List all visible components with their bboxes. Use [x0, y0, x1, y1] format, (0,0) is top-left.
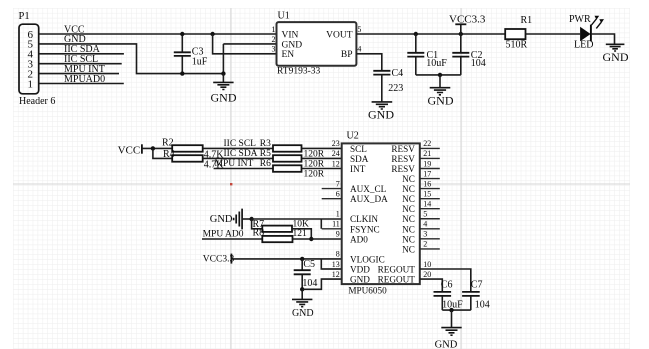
junction C1C2 ground — [438, 73, 442, 77]
junction VOUT/C1 — [414, 32, 418, 36]
svg-text:VCC3.3: VCC3.3 — [449, 13, 486, 25]
svg-text:8: 8 — [336, 250, 340, 259]
U2 pin 12 INT — [332, 159, 366, 174]
wire U2.10 to C7 — [420, 269, 471, 292]
svg-text:3: 3 — [423, 230, 427, 239]
svg-text:NC: NC — [402, 204, 415, 214]
U2 pin 8 VLOGIC — [336, 250, 385, 265]
wire VCC down to R4 — [153, 148, 172, 158]
U2 pin 18 GND — [332, 270, 370, 285]
U2 pin 7 AUX_CL — [336, 179, 387, 194]
svg-text:104: 104 — [471, 58, 486, 69]
svg-text:IIC SDA: IIC SDA — [224, 149, 258, 159]
junction C6C7 ground — [449, 308, 453, 312]
svg-text:SDA: SDA — [350, 154, 369, 164]
junction R7/AD0 — [309, 237, 313, 241]
svg-text:GND: GND — [282, 40, 303, 50]
svg-text:SCL: SCL — [350, 144, 367, 154]
svg-text:NC: NC — [402, 244, 415, 254]
wire R3 to U2.23 — [302, 147, 342, 149]
svg-text:AUX_DA: AUX_DA — [350, 194, 388, 204]
U2 pin 6 AUX_DA — [336, 189, 388, 204]
svg-text:FSYNC: FSYNC — [350, 224, 380, 234]
svg-text:19: 19 — [423, 159, 431, 168]
U2 pin 16 NC — [402, 179, 431, 194]
svg-text:9: 9 — [336, 230, 340, 239]
junction C5 ground — [300, 287, 304, 291]
wire C1 to C2 bottom — [416, 74, 461, 76]
wire LED cathode to ground — [591, 34, 615, 44]
svg-text:MPU AD0: MPU AD0 — [203, 229, 244, 239]
wire net IIC SDA from P1.4 — [39, 44, 124, 55]
svg-text:VDD: VDD — [350, 265, 370, 275]
U2 pin 15 NC — [402, 189, 431, 204]
U2 pin 2 NC — [402, 240, 427, 255]
svg-text:15: 15 — [423, 189, 431, 198]
U1 pin 2 — [272, 35, 276, 44]
svg-text:VCC3.3: VCC3.3 — [203, 254, 235, 264]
capacitor C6 10uF — [434, 280, 464, 311]
svg-text:4: 4 — [357, 45, 361, 54]
svg-text:R1: R1 — [521, 15, 533, 26]
U2 pin 17 NC — [402, 169, 431, 184]
svg-text:BP: BP — [341, 50, 353, 60]
svg-text:17: 17 — [423, 169, 431, 178]
U2 pin 5 NC — [402, 210, 427, 225]
wire U1.GND to ground rail — [223, 44, 276, 74]
svg-text:U1: U1 — [278, 11, 290, 22]
svg-text:120R: 120R — [304, 169, 325, 179]
ground symbol near C3 — [211, 74, 237, 105]
wire R1 to LED — [526, 33, 581, 35]
P1 pin 6 — [28, 29, 34, 41]
svg-text:NC: NC — [402, 184, 415, 194]
capacitor C1 10uF — [407, 34, 447, 75]
svg-text:R4: R4 — [163, 149, 175, 160]
wire VCC net from P1.6 to U1.VIN — [39, 24, 277, 35]
svg-text:R2: R2 — [162, 137, 174, 148]
P1 pin 3 — [28, 59, 34, 71]
U2 pin 19 RESV — [391, 159, 431, 174]
svg-text:12: 12 — [332, 159, 340, 168]
resistor R8 121 — [253, 227, 308, 242]
junction CLKIN gnd/R7 — [249, 217, 253, 221]
power port VCC3.3 top — [449, 13, 486, 34]
op-amp regulator U1 RT9193-33 — [277, 11, 357, 77]
junction GND rail/C3 — [180, 71, 184, 75]
svg-text:C6: C6 — [441, 280, 453, 291]
svg-text:23: 23 — [332, 139, 340, 148]
wire net MPUAD0 from P1.1 — [39, 74, 124, 85]
wire GND net from P1.5 down to ground rail — [39, 34, 224, 73]
wire gnd to U2.CLKIN and U2.FSYNC — [252, 219, 342, 229]
svg-text:REGOUT: REGOUT — [378, 275, 416, 285]
svg-text:MPUAD0: MPUAD0 — [64, 74, 105, 85]
U2 pin 21 RESV — [391, 149, 431, 164]
svg-text:22: 22 — [423, 139, 431, 148]
resistor R4 4.7K — [163, 149, 224, 170]
wire net MPU AD0 to R8 — [202, 229, 262, 239]
resistor R1 510R — [505, 15, 532, 51]
U2 pin 3 NC — [402, 230, 427, 245]
wire R6 to U2.12 — [302, 168, 342, 170]
capacitor C7 104 — [462, 280, 490, 311]
U2 pin 13 VDD — [332, 260, 370, 275]
resistor R6 120R — [260, 159, 325, 179]
svg-text:5: 5 — [423, 210, 427, 219]
svg-text:Header 6: Header 6 — [19, 96, 55, 107]
svg-text:1: 1 — [272, 25, 276, 34]
wire net MPU INT from P1.2 — [39, 64, 119, 75]
svg-text:NC: NC — [402, 194, 415, 204]
svg-text:R3: R3 — [260, 139, 271, 149]
svg-text:GND: GND — [350, 275, 370, 285]
svg-text:C7: C7 — [471, 280, 483, 291]
P1 pin 5 — [28, 39, 34, 51]
svg-text:NC: NC — [402, 234, 415, 244]
junction VCC/EN tie — [210, 32, 214, 36]
P1 pin 1 — [28, 78, 34, 90]
svg-text:LED: LED — [574, 40, 593, 51]
svg-text:NC: NC — [402, 214, 415, 224]
svg-text:GND: GND — [435, 339, 458, 349]
P1 pin 4 — [28, 49, 34, 61]
ground under C4 — [368, 102, 394, 122]
resistor R3 120R — [260, 139, 325, 160]
resistor R2 4.7K — [162, 137, 224, 160]
capacitor C5 104 — [294, 259, 318, 289]
svg-text:16: 16 — [423, 179, 431, 188]
svg-text:R8: R8 — [253, 227, 265, 238]
wire C6 to C7 bottom — [442, 309, 471, 311]
svg-text:C5: C5 — [303, 259, 315, 270]
svg-text:1: 1 — [28, 78, 34, 90]
U2 pin 1 CLKIN — [336, 210, 379, 225]
svg-text:104: 104 — [302, 278, 317, 289]
svg-text:20: 20 — [423, 270, 431, 279]
U1 pin 5 — [357, 25, 361, 34]
wire net MPU INT to R6 — [214, 159, 273, 169]
svg-text:PWR: PWR — [569, 14, 591, 25]
U2 pin 10 REGOUT — [378, 260, 432, 275]
U2 pin 20 REGOUT — [378, 270, 432, 285]
svg-text:U2: U2 — [347, 131, 359, 142]
svg-text:MPU INT: MPU INT — [215, 159, 254, 169]
wire R7 to AD0 node — [292, 229, 311, 239]
wire net IIC SCL from P1.3 — [39, 54, 122, 65]
svg-text:AUX_CL: AUX_CL — [350, 184, 387, 194]
sheet origin marker — [230, 183, 232, 185]
svg-text:1uF: 1uF — [192, 56, 208, 67]
wire junction down to R7 — [252, 219, 263, 229]
U1 pin 3 — [272, 45, 276, 54]
svg-text:GND: GND — [428, 94, 454, 108]
U2 pin 11 FSYNC — [332, 220, 380, 235]
ground under C6 C7 — [435, 310, 462, 349]
ground at LED — [603, 44, 629, 64]
svg-text:10: 10 — [423, 260, 431, 269]
svg-text:MPU6050: MPU6050 — [348, 286, 387, 296]
svg-text:VOUT: VOUT — [326, 30, 353, 40]
svg-text:C4: C4 — [392, 68, 404, 79]
wire VCC to U1.EN — [213, 34, 277, 54]
wire U2.20 to C6 — [420, 279, 443, 292]
svg-text:RT9193-33: RT9193-33 — [277, 66, 320, 76]
U2 left bare pin stubs — [322, 189, 342, 279]
svg-text:P1: P1 — [19, 11, 30, 22]
svg-text:510R: 510R — [506, 40, 528, 51]
P1 pin 2 — [28, 68, 34, 80]
svg-text:IIC SCL: IIC SCL — [224, 139, 257, 149]
svg-text:VIN: VIN — [282, 30, 299, 40]
connector P1 — [19, 11, 56, 107]
svg-text:AD0: AD0 — [350, 234, 368, 244]
svg-text:12: 12 — [332, 270, 340, 279]
LED PWR — [569, 14, 604, 51]
power port VCC middle — [118, 144, 173, 156]
svg-text:GND: GND — [210, 214, 233, 225]
svg-text:GND: GND — [292, 308, 314, 319]
svg-text:R5: R5 — [260, 149, 271, 159]
svg-text:RESV: RESV — [391, 164, 415, 174]
wire net IIC SCL to R3 — [203, 139, 273, 149]
ground under C1 C2 — [428, 75, 454, 108]
svg-text:223: 223 — [388, 83, 403, 94]
svg-text:GND: GND — [211, 91, 237, 105]
svg-text:VCC: VCC — [118, 145, 141, 157]
svg-text:13: 13 — [332, 260, 340, 269]
U2 right pin stubs — [420, 148, 440, 249]
svg-text:CLKIN: CLKIN — [350, 214, 378, 224]
svg-text:2: 2 — [272, 35, 276, 44]
wire R5 to U2.24 — [302, 157, 342, 159]
junction VCC3.3/C5 — [300, 257, 304, 261]
svg-text:RESV: RESV — [391, 144, 415, 154]
wire VOUT rail to R1 — [356, 33, 505, 35]
svg-text:INT: INT — [350, 164, 366, 174]
svg-text:21: 21 — [423, 149, 431, 158]
svg-text:GND: GND — [368, 107, 394, 121]
svg-text:REGOUT: REGOUT — [378, 265, 416, 275]
svg-text:11: 11 — [332, 220, 340, 229]
svg-text:VLOGIC: VLOGIC — [350, 254, 385, 264]
U2 pin 4 NC — [402, 220, 427, 235]
svg-text:NC: NC — [402, 224, 415, 234]
svg-text:7: 7 — [336, 179, 340, 188]
svg-text:RESV: RESV — [391, 154, 415, 164]
svg-text:10uF: 10uF — [426, 58, 447, 69]
svg-text:4: 4 — [423, 220, 427, 229]
wire net IIC SDA to R5 — [203, 149, 273, 159]
IC U2 MPU6050 — [342, 131, 420, 296]
resistor R7 10K — [253, 219, 310, 232]
U2 pin 22 RESV — [391, 139, 431, 154]
junction VOUT/VCC3.3 — [459, 32, 463, 36]
resistor R5 120R — [260, 149, 325, 170]
U2 pin 9 AD0 — [336, 230, 368, 245]
power port VCC3.3 lower — [203, 254, 342, 265]
svg-text:2: 2 — [423, 240, 427, 249]
U2 pin 23 SCL — [332, 139, 367, 154]
svg-text:104: 104 — [475, 299, 490, 310]
wire C5 bottom to U2.GND pin — [302, 279, 342, 289]
wire U1.BP to C4 — [356, 54, 381, 71]
svg-text:6: 6 — [336, 189, 340, 198]
junction GND rail/ground symbol — [221, 71, 225, 75]
junction VCC/R4 tap — [151, 146, 155, 150]
capacitor C4 223 — [373, 68, 403, 102]
svg-text:GND: GND — [603, 50, 629, 64]
capacitor C3 1uF — [174, 34, 208, 74]
svg-text:R6: R6 — [260, 159, 271, 169]
U1 pin 1 — [272, 25, 276, 34]
ground symbol rotated at CLKIN — [210, 209, 252, 230]
capacitor C2 104 — [452, 34, 486, 75]
wire R8 to U2.AD0 — [293, 238, 342, 240]
U1 pin 4 — [357, 45, 361, 54]
svg-text:121: 121 — [293, 229, 308, 239]
svg-text:NC: NC — [402, 174, 415, 184]
svg-text:14: 14 — [423, 200, 431, 209]
svg-text:1: 1 — [336, 210, 340, 219]
svg-text:24: 24 — [332, 149, 340, 158]
ground under C5 — [292, 289, 314, 319]
junction VCC/C3 — [180, 32, 184, 36]
svg-text:EN: EN — [282, 50, 295, 60]
svg-text:5: 5 — [357, 25, 361, 34]
U2 pin 14 NC — [402, 200, 431, 215]
svg-text:3: 3 — [272, 45, 276, 54]
wire VLOGIC rail to U2.VDD — [321, 259, 341, 269]
U2 pin 24 SDA — [332, 149, 369, 164]
